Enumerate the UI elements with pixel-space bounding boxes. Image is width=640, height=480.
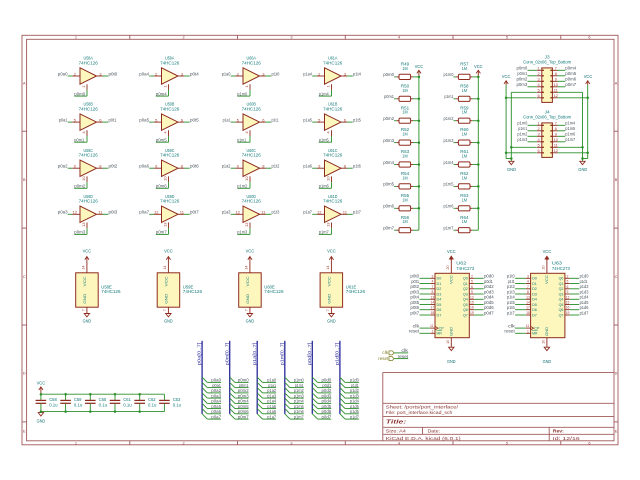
svg-text:p0a6: p0a6 (139, 164, 149, 169)
svg-text:10: 10 (325, 176, 330, 181)
svg-text:74HC126: 74HC126 (79, 60, 99, 65)
svg-text:0.1u: 0.1u (173, 403, 182, 408)
wire input net p1a7 (312, 213, 317, 215)
svg-text:p1m5: p1m5 (444, 182, 454, 187)
svg-text:1M: 1M (462, 66, 467, 71)
wire enable net p1m1 (237, 136, 250, 142)
wire input net p0a3 (68, 213, 73, 215)
svg-text:GND: GND (245, 294, 250, 304)
buffer U59D 74HC126 (154, 206, 184, 228)
svg-text:6: 6 (471, 285, 473, 289)
wire net p1d1 from U63 Q1 (570, 283, 580, 285)
svg-text:Title:: Title: (386, 420, 407, 426)
wire net p0t2 to U62 D2 (420, 288, 431, 290)
svg-text:reset: reset (398, 354, 409, 359)
wire net p1m7 to R64 (454, 229, 457, 231)
svg-text:19: 19 (566, 311, 570, 315)
svg-text:p1t6: p1t6 (353, 164, 361, 169)
svg-text:1M: 1M (402, 154, 407, 159)
svg-text:7: 7 (326, 309, 330, 311)
svg-text:15: 15 (470, 301, 474, 305)
svg-text:clk: clk (382, 350, 389, 355)
svg-text:p0a6: p0a6 (211, 409, 221, 414)
svg-text:C59: C59 (74, 397, 82, 402)
wire enable net p0m5 (156, 136, 169, 142)
wire net p1d2 (345, 392, 359, 394)
svg-text:p0t6: p0t6 (410, 305, 419, 310)
wire net p1m5 (290, 408, 304, 410)
svg-text:12: 12 (236, 210, 241, 215)
svg-text:GND: GND (450, 327, 454, 336)
svg-text:MR: MR (437, 331, 442, 336)
svg-text:74HC126: 74HC126 (160, 153, 180, 158)
register U63 74HC273 (526, 256, 570, 347)
svg-text:1M: 1M (402, 110, 407, 115)
svg-text:C62: C62 (148, 397, 156, 402)
wire net p1a0 (263, 381, 277, 383)
svg-text:p1m2: p1m2 (237, 184, 247, 189)
wire enable net p1m0 (237, 90, 250, 96)
svg-text:VCC: VCC (502, 74, 511, 79)
wire net p0m6 (235, 413, 249, 415)
wire net p1m3 to R60 (454, 142, 457, 144)
svg-text:p0t7: p0t7 (410, 310, 419, 315)
junction VCC rail (40, 393, 43, 396)
svg-text:11: 11 (526, 324, 530, 328)
svg-text:74HC273: 74HC273 (552, 266, 570, 271)
svg-text:clk: clk (401, 348, 409, 353)
svg-text:p0m1: p0m1 (74, 138, 84, 143)
svg-text:p0d3: p0d3 (322, 393, 332, 398)
svg-text:p0m4: p0m4 (156, 91, 167, 96)
wire enable net p1m3 (237, 228, 250, 234)
svg-text:VCC: VCC (543, 249, 552, 254)
wire R53 to VCC rail (413, 164, 419, 166)
svg-text:p0m1: p0m1 (384, 94, 394, 99)
junction J4 pin6 / VCC rail (505, 152, 508, 155)
svg-text:p0t2: p0t2 (109, 164, 118, 169)
frame row letters (23, 81, 618, 433)
wire net reset to U62 (420, 332, 431, 334)
bus entry p0a6 (202, 409, 207, 414)
svg-text:p1d7: p1d7 (350, 414, 359, 419)
resistor R63 1M (456, 206, 472, 211)
svg-text:p0t1: p0t1 (411, 279, 419, 284)
junction GND rail (40, 410, 43, 413)
svg-text:p0a2: p0a2 (58, 164, 68, 169)
wire input net p1a5 (312, 121, 317, 123)
wire net clk to U62 (420, 327, 431, 329)
svg-text:B: B (615, 178, 618, 182)
svg-text:18: 18 (526, 311, 530, 315)
wire enable net p1m6 (319, 182, 332, 188)
bus entry p0d7 (312, 414, 317, 419)
wire input net p0a5 (149, 121, 154, 123)
wire output net p1t0 (266, 75, 272, 77)
wire net p1d4 from U63 Q4 (570, 298, 580, 300)
svg-text:VCC: VCC (82, 276, 87, 286)
wire VCC left rail to J3 pin 6 and J4 pin 6 (506, 85, 537, 159)
wire net p0m1 to J3 pin 2 (528, 75, 537, 77)
svg-text:D3: D3 (532, 291, 538, 296)
svg-text:p1m3: p1m3 (517, 137, 527, 142)
svg-text:p1a3: p1a3 (222, 210, 231, 215)
svg-text:C58: C58 (49, 397, 57, 402)
bus entry p1d4 (340, 398, 345, 403)
bus entry p1a5 (257, 403, 262, 408)
svg-text:Sheet: /ports/port_interface/: Sheet: /ports/port_interface/ (386, 404, 459, 409)
wire net p0m0 to J3 pin 1 (528, 69, 537, 71)
wire output net p0t3 (103, 213, 109, 215)
wire net p1d6 from U63 Q6 (570, 309, 580, 311)
svg-text:p1m3: p1m3 (294, 393, 304, 398)
buffer U61D 74HC126 (317, 206, 347, 228)
svg-text:p0m2: p0m2 (74, 184, 85, 189)
svg-text:1M: 1M (402, 219, 407, 224)
resistor R62 1M (456, 184, 472, 189)
svg-text:12: 12 (73, 210, 78, 215)
capacitor C62 0.1u (134, 394, 145, 411)
svg-text:14: 14 (163, 266, 167, 270)
svg-text:reset: reset (378, 356, 389, 361)
svg-text:p1d7: p1d7 (580, 310, 589, 315)
wire net p1m3 (290, 397, 304, 399)
power VCC above U61E (329, 257, 333, 263)
svg-text:p1a2: p1a2 (222, 164, 231, 169)
wire net p0a1 (207, 387, 221, 389)
junction on VCC rail row 5 (418, 163, 421, 166)
svg-text:p0t4: p0t4 (190, 71, 199, 76)
resistor R51 1M (397, 118, 413, 123)
svg-text:11: 11 (430, 324, 434, 328)
svg-text:5: 5 (506, 441, 508, 445)
wire net p1m7 (290, 418, 304, 420)
wire enable net p1m2 (237, 182, 250, 188)
svg-text:reset: reset (409, 329, 420, 334)
svg-text:74HC126: 74HC126 (323, 106, 343, 111)
wire net p1m0 to J4 pin 1 (528, 124, 537, 126)
svg-text:GND: GND (82, 294, 87, 304)
svg-text:Q3: Q3 (463, 291, 468, 296)
svg-text:19: 19 (470, 311, 474, 315)
svg-text:p0m6: p0m6 (565, 77, 576, 82)
wire output net p0t0 (103, 75, 109, 77)
wire net p1a7 (263, 418, 277, 420)
bus entry p1a0 (257, 377, 262, 382)
bus entry p0a5 (202, 403, 207, 408)
bus entry p0m7 (230, 414, 235, 419)
wire net p0t3 to U62 D3 (420, 293, 431, 295)
svg-text:GND: GND (447, 359, 456, 364)
connector J4 Conn_02x06_Top_Bottom (537, 123, 558, 157)
svg-text:12: 12 (566, 295, 570, 299)
svg-text:D7: D7 (437, 312, 443, 317)
buffer U59B 74HC126 (154, 114, 184, 136)
svg-text:GND: GND (327, 294, 332, 304)
junction on VCC rail row 5 (477, 163, 480, 166)
junction on VCC rail row 7 (477, 207, 480, 210)
wire R50 to VCC rail (413, 98, 419, 100)
svg-text:p1t2: p1t2 (272, 164, 280, 169)
svg-text:74HC126: 74HC126 (160, 199, 180, 204)
svg-text:p1a5: p1a5 (303, 117, 312, 122)
svg-text:p0a3: p0a3 (211, 393, 221, 398)
wire input net p1a3 (231, 213, 236, 215)
power GND below U58E (84, 314, 89, 317)
svg-text:p0m3: p0m3 (383, 138, 394, 143)
wire net p0d7 (318, 418, 332, 420)
wire net p0d2 (318, 392, 332, 394)
svg-text:Q6: Q6 (463, 307, 468, 312)
svg-text:1: 1 (75, 36, 77, 40)
svg-text:VCC: VCC (545, 275, 549, 284)
svg-text:p0d[0..7]: p0d[0..7] (307, 343, 312, 366)
svg-text:1: 1 (75, 441, 77, 445)
svg-text:VCC: VCC (474, 64, 483, 69)
wire net p1a6 (263, 413, 277, 415)
wire net p0m2 (235, 392, 249, 394)
svg-text:C: C (615, 275, 618, 279)
buffer U58A 74HC126 (72, 68, 102, 90)
bus p0d[0..7] (311, 341, 313, 414)
svg-text:p1m1: p1m1 (444, 94, 453, 99)
svg-text:12: 12 (154, 210, 159, 215)
junction J4 pin12 / VCC rail (586, 152, 589, 155)
wire net p1a1 (263, 387, 277, 389)
power GND below U63 (544, 347, 549, 350)
power VCC above U62 (449, 256, 453, 259)
wire R57 to VCC rail (472, 76, 478, 78)
svg-text:VCC: VCC (245, 276, 250, 286)
wire output net p1t1 (266, 121, 272, 123)
bus entry p1a2 (257, 388, 262, 393)
svg-text:p1m7: p1m7 (294, 414, 304, 419)
VCC rail of resistor bank 2 (477, 77, 479, 230)
bus p0m[0..7] (229, 341, 231, 414)
svg-text:p1t7: p1t7 (507, 310, 515, 315)
power GND for capacitor bank (38, 413, 43, 416)
wire R62 to VCC rail (472, 185, 478, 187)
power VCC for capacitor bank (39, 387, 43, 394)
svg-text:p0t0: p0t0 (109, 71, 118, 76)
buffer U61A 74HC126 (317, 68, 347, 90)
frame row ticks (22, 131, 618, 422)
wire enable net p0m0 (74, 90, 87, 96)
wire net p1d7 from U63 Q7 (570, 314, 580, 316)
junction VCC rail (114, 393, 117, 396)
bus entry p1d5 (340, 403, 345, 408)
svg-text:GND: GND (327, 319, 336, 324)
wire input net p0a6 (149, 167, 154, 169)
svg-text:p1m3: p1m3 (444, 138, 454, 143)
svg-text:10: 10 (542, 340, 546, 344)
wire net p1d0 (345, 381, 359, 383)
svg-text:p0m6: p0m6 (156, 184, 167, 189)
svg-text:17: 17 (431, 306, 435, 310)
svg-text:6: 6 (567, 285, 569, 289)
power VCC for resistor bank (417, 70, 421, 77)
wire net p1m1 (290, 387, 304, 389)
wire net p1a2 (263, 392, 277, 394)
svg-text:Size: A4: Size: A4 (386, 428, 407, 433)
svg-text:p1m0: p1m0 (444, 72, 454, 77)
svg-text:p1m1: p1m1 (295, 383, 304, 388)
svg-text:74HC126: 74HC126 (160, 60, 180, 65)
wire net p0d7 from U62 Q7 (474, 314, 484, 316)
bus entry p0m2 (230, 388, 235, 393)
bus entry p1m6 (285, 409, 290, 414)
svg-text:D1: D1 (532, 281, 538, 286)
power GND below U61E (329, 314, 334, 317)
svg-text:p0t6: p0t6 (190, 164, 199, 169)
svg-text:0.1u: 0.1u (99, 403, 108, 408)
svg-text:p0a1: p0a1 (212, 383, 221, 388)
wire net p1t7 to U63 D7 (515, 314, 526, 316)
svg-text:1M: 1M (402, 66, 407, 71)
bus entry p0d2 (312, 388, 317, 393)
bus entry p1m1 (285, 382, 290, 387)
svg-text:1M: 1M (462, 132, 467, 137)
svg-text:p0d6: p0d6 (484, 305, 494, 310)
bus entry p0d3 (312, 393, 317, 398)
wire net p0m4 to R53 (394, 164, 397, 166)
wire net p1m4 (290, 402, 304, 404)
svg-text:5: 5 (506, 36, 508, 40)
svg-text:VCC: VCC (164, 276, 169, 286)
wire input net p0a2 (68, 167, 73, 169)
svg-text:7: 7 (527, 285, 529, 289)
svg-text:74HC126: 74HC126 (160, 106, 180, 111)
bus entry p0d4 (312, 398, 317, 403)
wire input net p1a1 (231, 121, 236, 123)
junction GND rail (114, 410, 117, 413)
bus entry p0m0 (230, 377, 235, 382)
wire net p1d3 from U63 Q3 (570, 293, 580, 295)
svg-text:p1a0: p1a0 (222, 71, 231, 76)
svg-text:p1a6: p1a6 (267, 409, 276, 414)
wire net p1m5 to J4 pin 8 (558, 130, 566, 132)
junction VCC rail (138, 393, 141, 396)
wire net p1t1 to U63 D1 (515, 283, 526, 285)
pin name MR of U62 (437, 331, 442, 336)
resistor R49 1M (397, 74, 413, 79)
wire output net p1t5 (347, 121, 353, 123)
wire net p0m2 to J3 pin 3 (528, 80, 537, 82)
svg-text:1M: 1M (402, 132, 407, 137)
svg-text:13: 13 (244, 222, 249, 227)
svg-text:p1t3: p1t3 (507, 289, 515, 294)
resistor R50 1M (397, 96, 413, 101)
bus entry p1m4 (285, 398, 290, 403)
svg-text:p0m[0..7]: p0m[0..7] (224, 343, 229, 366)
bus entry p0a4 (202, 398, 207, 403)
svg-text:p1m4: p1m4 (444, 160, 454, 165)
wire net p1d0 from U63 Q0 (570, 277, 580, 279)
svg-text:p0m6: p0m6 (238, 409, 249, 414)
power unit U60E 74HC126 (239, 263, 262, 314)
bus p1m[0..7] (284, 341, 286, 414)
bus entry p1d3 (340, 393, 345, 398)
wire net p0m4 to J3 pin 7 (558, 69, 566, 71)
svg-text:p0m0: p0m0 (74, 91, 85, 96)
svg-text:p0d1: p0d1 (484, 279, 493, 284)
wire net p0d4 (318, 402, 332, 404)
bus entry p0d0 (312, 377, 317, 382)
wire net p0m2 to R51 (394, 120, 397, 122)
wire output net p0t5 (184, 121, 190, 123)
wire J3 pin 11 to J4 pin 11 right inner rail (558, 92, 583, 161)
svg-text:1M: 1M (462, 175, 467, 180)
svg-text:5: 5 (471, 280, 473, 284)
bus entry p0a3 (202, 393, 207, 398)
svg-text:p1m4: p1m4 (565, 121, 575, 126)
svg-text:Id: 12/16: Id: 12/16 (553, 436, 581, 441)
svg-text:1M: 1M (402, 88, 407, 93)
svg-text:20: 20 (446, 265, 450, 269)
svg-text:74HC126: 74HC126 (242, 60, 262, 65)
svg-text:p0m3: p0m3 (74, 230, 85, 235)
svg-text:4: 4 (398, 36, 400, 40)
svg-text:p1m7: p1m7 (319, 230, 329, 235)
svg-text:1M: 1M (402, 197, 407, 202)
svg-text:p0m4: p0m4 (383, 160, 394, 165)
svg-text:74HC126: 74HC126 (242, 199, 262, 204)
wire output net p0t1 (103, 121, 109, 123)
wire output net p1t2 (266, 167, 272, 169)
junction on VCC rail row 2 (418, 98, 421, 101)
wire input net p0a0 (68, 75, 73, 77)
wire net p1d3 (345, 397, 359, 399)
svg-text:p0m6: p0m6 (383, 204, 394, 209)
wire enable net p0m7 (156, 228, 169, 234)
wire output net p1t4 (347, 75, 353, 77)
svg-text:VCC: VCC (415, 64, 424, 69)
svg-text:p0t3: p0t3 (410, 289, 419, 294)
wire net p0m7 (235, 418, 249, 420)
svg-text:74HC126: 74HC126 (79, 153, 99, 158)
power unit U61E 74HC126 (320, 263, 343, 314)
power GND below left rail (509, 161, 514, 164)
capacitor C59 0.1u (60, 394, 71, 411)
svg-text:GND: GND (578, 167, 588, 172)
hierarchical label reset (378, 356, 394, 361)
power VCC for resistor bank (476, 70, 480, 77)
bus p1d[0..7] (339, 341, 341, 414)
wire output net p1t6 (347, 167, 353, 169)
bus entry p1m0 (285, 377, 290, 382)
resistor R52 1M (397, 140, 413, 145)
wire net p0m5 to R54 (394, 185, 397, 187)
svg-text:p0d7: p0d7 (322, 414, 332, 419)
svg-text:Conn_02x06_Top_Bottom: Conn_02x06_Top_Bottom (523, 60, 571, 65)
pin name MR of U63 (532, 331, 537, 336)
wire net p0m4 (235, 402, 249, 404)
svg-text:p0m2: p0m2 (383, 116, 394, 121)
svg-text:3: 3 (431, 274, 433, 278)
svg-text:p0m7: p0m7 (156, 230, 167, 235)
svg-text:9: 9 (471, 290, 473, 294)
wire net p0a2 (207, 392, 221, 394)
svg-text:2: 2 (183, 36, 185, 40)
svg-text:p0m3: p0m3 (238, 393, 249, 398)
bus entry p0d1 (312, 382, 317, 387)
VCC rail of resistor bank 1 (418, 77, 420, 230)
svg-text:74HC126: 74HC126 (323, 199, 343, 204)
resistor R54 1M (397, 184, 413, 189)
wire input net p1a0 (231, 75, 236, 77)
svg-text:p1t6: p1t6 (507, 305, 515, 310)
svg-text:1: 1 (527, 329, 529, 333)
